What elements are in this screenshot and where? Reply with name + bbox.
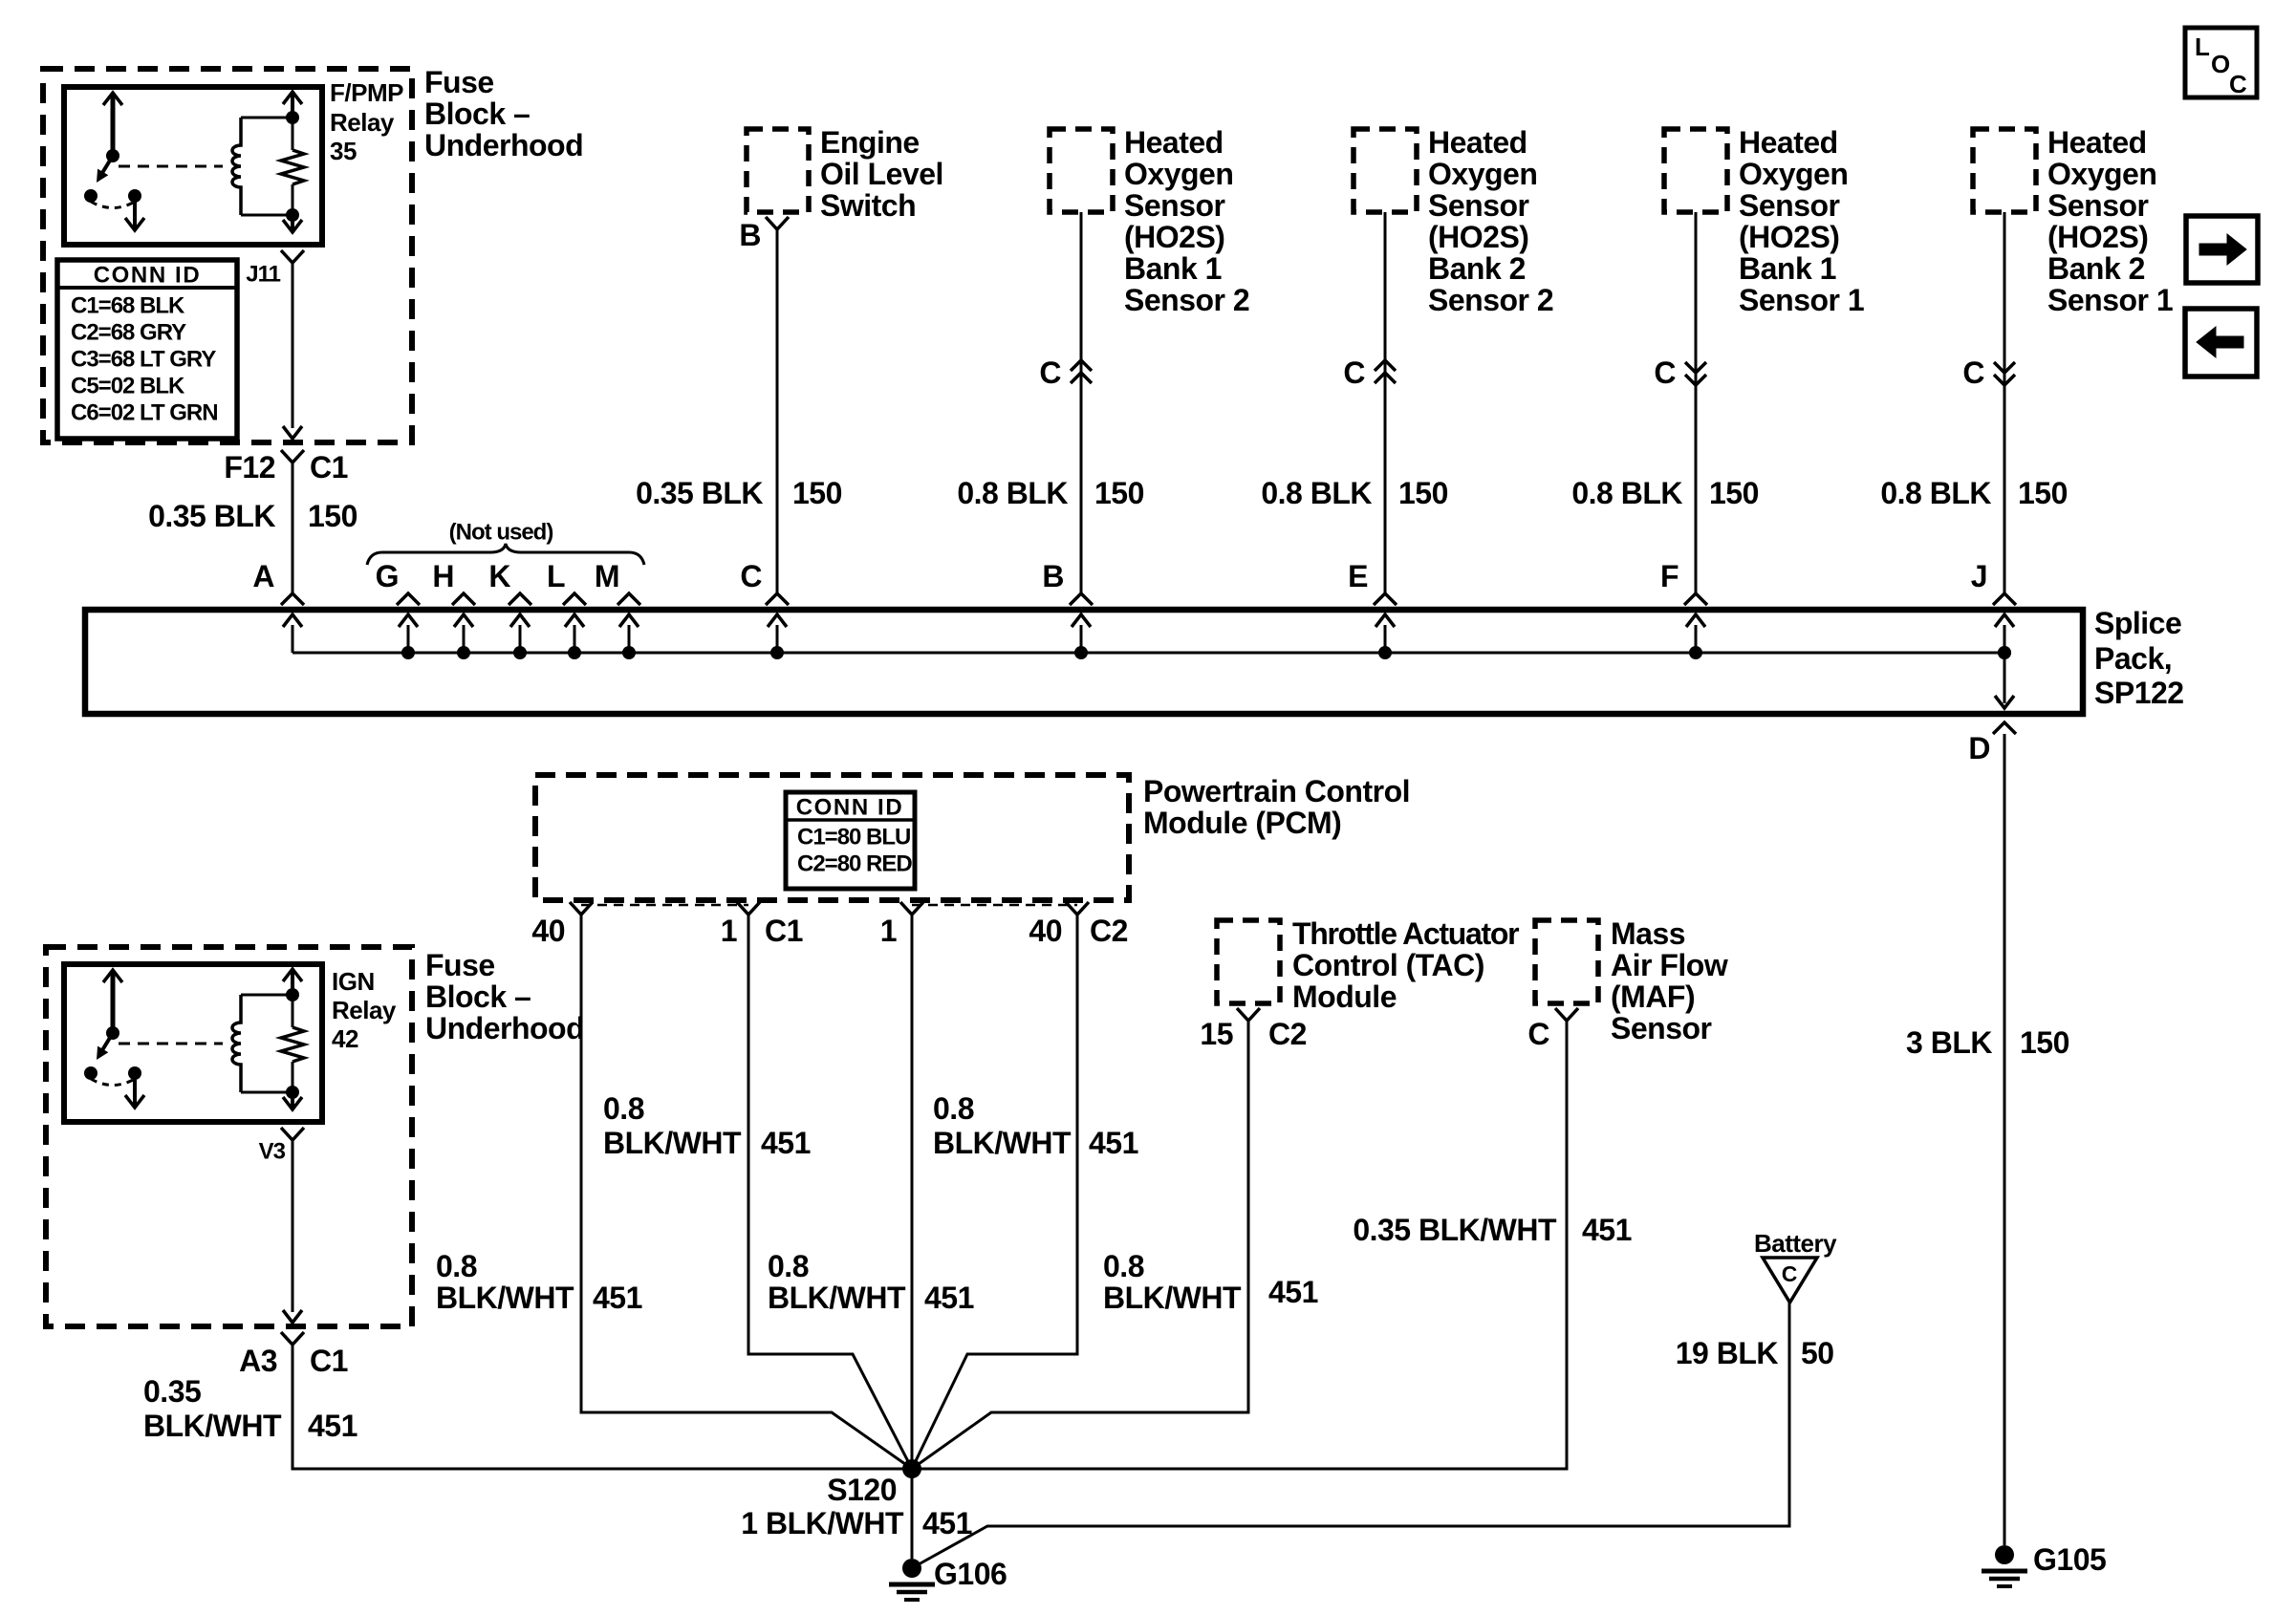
wire V3 to fuse block edge: [292, 1140, 294, 1312]
engine oil level switch dashed box: [747, 129, 809, 212]
svg-text:Oxygen: Oxygen: [1739, 157, 1848, 191]
PCM connector C2 dashed strip: [912, 904, 1077, 907]
fuse block underhood (bottom) dashed box: [46, 947, 412, 1326]
brace over unused pins G-M: [367, 544, 644, 565]
svg-text:C1: C1: [310, 1344, 348, 1378]
svg-text:Relay: Relay: [332, 996, 397, 1024]
svg-text:C: C: [1962, 355, 1984, 390]
wire TAC to S120: [912, 1021, 1248, 1469]
svg-text:19 BLK: 19 BLK: [1676, 1336, 1779, 1370]
svg-text:150: 150: [1094, 476, 1144, 510]
splice pack internal bus wire: [292, 652, 2004, 655]
svg-text:C2: C2: [1268, 1017, 1307, 1051]
svg-text:Oil Level: Oil Level: [820, 157, 943, 191]
relay F/PMP 35 coil terminal arrow (bottom): [291, 215, 294, 230]
relay F/PMP 35 NO contact node: [128, 189, 141, 203]
svg-text:Control (TAC): Control (TAC): [1292, 948, 1484, 982]
relay IGN 42 suppression resistor: [281, 1027, 304, 1062]
relay IGN 42 wire from resistor: [292, 1062, 294, 1092]
svg-text:F12: F12: [224, 450, 275, 484]
svg-text:Heated: Heated: [1739, 125, 1838, 160]
svg-text:G106: G106: [934, 1557, 1007, 1591]
svg-text:150: 150: [308, 499, 357, 533]
splice pack entry F: terminal chevron: [1684, 593, 1707, 605]
connector A3/C1 (female): [281, 1332, 304, 1345]
relay IGN 42 NC contact node: [84, 1066, 97, 1080]
svg-text:Splice: Splice: [2094, 606, 2181, 640]
svg-text:C: C: [2229, 70, 2247, 98]
svg-text:C3=68 LT GRY: C3=68 LT GRY: [71, 347, 216, 373]
splice pack entry H: internal arrow: [463, 625, 466, 653]
svg-text:BLK/WHT: BLK/WHT: [143, 1409, 282, 1443]
splice pack entry B: internal arrow: [1080, 625, 1083, 653]
splice pack SP122 box: [85, 610, 2083, 714]
wire D to ground G105: [2004, 734, 2006, 1545]
svg-text:Oxygen: Oxygen: [1428, 157, 1537, 191]
svg-text:451: 451: [924, 1281, 974, 1315]
PCM pin connector at x=608 (female): [570, 902, 593, 915]
svg-text:C: C: [1527, 1017, 1549, 1051]
svg-text:G105: G105: [2033, 1542, 2106, 1577]
splice pack exit D: junction dot: [1998, 646, 2011, 659]
svg-text:C2=80 RED: C2=80 RED: [797, 851, 912, 877]
svg-text:Bank 2: Bank 2: [2047, 251, 2145, 286]
wire J11 to fuse block edge: [292, 263, 294, 428]
svg-text:Engine: Engine: [820, 125, 920, 160]
svg-text:(HO2S): (HO2S): [1428, 220, 1528, 254]
svg-text:0.8: 0.8: [436, 1249, 477, 1283]
nav arrow left: [2185, 309, 2257, 377]
svg-text:0.35: 0.35: [143, 1374, 201, 1409]
relay IGN 42 node bottom: [286, 1086, 299, 1099]
svg-text:0.8: 0.8: [768, 1249, 809, 1283]
splice pack junction dot E: [1378, 646, 1392, 659]
relay F/PMP 35 wire to resistor: [292, 118, 294, 150]
svg-text:0.35 BLK/WHT: 0.35 BLK/WHT: [1353, 1213, 1557, 1247]
nav arrow right: [2186, 216, 2258, 283]
svg-text:SP122: SP122: [2094, 676, 2184, 710]
relay IGN 42 node top: [286, 988, 299, 1001]
inline connector C (HO2S B2S1): [1994, 362, 2015, 373]
relay F/PMP 35 wire from resistor: [292, 184, 294, 215]
wire HO2S B2S2 upper segment: [1384, 212, 1387, 593]
svg-text:Sensor: Sensor: [2047, 188, 2149, 223]
svg-text:Heated: Heated: [1428, 125, 1527, 160]
connector 15/C2 (TAC): [1237, 1008, 1260, 1021]
svg-text:Oxygen: Oxygen: [2047, 157, 2156, 191]
svg-text:Sensor 2: Sensor 2: [1124, 283, 1249, 317]
splice pack entry E: internal arrow: [1384, 625, 1387, 653]
svg-text:Underhood: Underhood: [425, 1011, 584, 1045]
svg-text:M: M: [595, 559, 619, 593]
relay F/PMP 35 suppression resistor: [281, 150, 304, 184]
PCM pin connector at x=954 (female): [900, 902, 923, 915]
relay F/PMP 35 switch common terminal arrow: [111, 95, 116, 156]
svg-text:451: 451: [1582, 1213, 1632, 1247]
svg-text:150: 150: [2020, 1025, 2069, 1060]
splice pack entry C: terminal chevron: [766, 593, 789, 605]
svg-text:Sensor: Sensor: [1739, 188, 1840, 223]
svg-text:Sensor 1: Sensor 1: [2047, 283, 2173, 317]
svg-text:Sensor 2: Sensor 2: [1428, 283, 1553, 317]
wire MAF to S120: [914, 1021, 1567, 1469]
throttle actuator control module dashed box: [1217, 920, 1280, 1003]
svg-text:42: 42: [332, 1024, 358, 1053]
svg-text:J: J: [1971, 559, 1987, 593]
connector pin B (oil level switch): [766, 217, 789, 229]
splice pack entry E: terminal chevron: [1374, 593, 1397, 605]
heated oxygen sensor bank 1 sensor 2 dashed box: [1050, 129, 1113, 212]
splice pack junction dot H: [457, 646, 470, 659]
relay IGN 42 coil top wire: [241, 994, 292, 997]
relay IGN 42 contact travel arc: [91, 1079, 135, 1086]
relay F/PMP 35 box: [64, 87, 322, 245]
splice pack entry L: internal arrow: [574, 625, 576, 653]
relay F/PMP 35 actuation dashed link: [119, 165, 223, 168]
ground G105 symbol: [1995, 1545, 2014, 1564]
svg-text:S120: S120: [827, 1473, 897, 1507]
svg-text:F/PMP: F/PMP: [330, 78, 403, 107]
relay F/PMP 35 NO contact terminal arrow: [133, 196, 137, 228]
splice pack entry H: terminal chevron: [452, 593, 475, 605]
svg-text:Bank 2: Bank 2: [1428, 251, 1526, 286]
svg-text:3 BLK: 3 BLK: [1906, 1025, 1992, 1060]
svg-text:Throttle Actuator: Throttle Actuator: [1292, 916, 1519, 951]
svg-text:Heated: Heated: [1124, 125, 1224, 160]
svg-text:1 BLK/WHT: 1 BLK/WHT: [741, 1506, 904, 1540]
wire battery to ground G106: [919, 1303, 1789, 1564]
svg-text:(MAF): (MAF): [1611, 980, 1695, 1014]
wire PCM C1 pin 1 to S120: [748, 915, 912, 1469]
wire F12 to splice pack pin A: [292, 463, 294, 593]
svg-text:(HO2S): (HO2S): [2047, 220, 2148, 254]
svg-text:Heated: Heated: [2047, 125, 2147, 160]
splice pack junction dot J: [1998, 646, 2011, 659]
svg-text:BLK/WHT: BLK/WHT: [933, 1126, 1072, 1160]
svg-text:L: L: [547, 559, 565, 593]
svg-text:BLK/WHT: BLK/WHT: [436, 1281, 574, 1315]
svg-text:Oxygen: Oxygen: [1124, 157, 1233, 191]
splice pack entry J: terminal chevron: [1993, 593, 2016, 605]
arrow into fuse block boundary (bottom): [283, 1310, 302, 1323]
svg-text:CONN ID: CONN ID: [94, 263, 202, 289]
svg-text:150: 150: [2018, 476, 2068, 510]
svg-text:Underhood: Underhood: [424, 128, 583, 162]
relay F/PMP 35 node bottom: [286, 208, 299, 222]
svg-text:0.8: 0.8: [933, 1091, 974, 1126]
svg-text:C1: C1: [765, 914, 803, 948]
powertrain control module dashed box: [535, 775, 1129, 900]
splice pack junction dot B: [1074, 646, 1088, 659]
relay F/PMP 35 coil terminal arrow (top): [291, 95, 294, 118]
svg-text:451: 451: [1089, 1126, 1138, 1160]
svg-text:Bank 1: Bank 1: [1739, 251, 1836, 286]
svg-text:451: 451: [1268, 1275, 1318, 1309]
connector J11 (female): [281, 250, 304, 263]
svg-text:Sensor: Sensor: [1124, 188, 1225, 223]
svg-text:1: 1: [880, 914, 897, 948]
svg-text:0.8 BLK: 0.8 BLK: [1571, 476, 1682, 510]
relay F/PMP 35 node top: [286, 111, 299, 124]
svg-text:150: 150: [1398, 476, 1448, 510]
relay IGN 42 coil terminal arrow (bottom): [291, 1092, 294, 1108]
relay F/PMP 35 coil bottom wire: [241, 214, 292, 217]
relay F/PMP 35 switch pivot node: [106, 149, 119, 162]
splice pack entry A: internal arrow: [292, 625, 294, 653]
svg-text:35: 35: [330, 137, 357, 165]
relay F/PMP 35 NC contact node: [84, 189, 97, 203]
svg-text:0.8: 0.8: [1103, 1249, 1144, 1283]
splice pack entry L: terminal chevron: [563, 593, 586, 605]
inline connector C (HO2S B1S1): [1685, 362, 1706, 373]
svg-text:15: 15: [1200, 1017, 1233, 1051]
svg-text:Module: Module: [1292, 980, 1397, 1014]
relay IGN 42 NO contact node: [128, 1066, 141, 1080]
svg-text:C1=68 BLK: C1=68 BLK: [71, 293, 185, 319]
svg-text:C: C: [1782, 1261, 1798, 1286]
svg-text:40: 40: [1029, 914, 1062, 948]
relay F/PMP 35 switch arm: [102, 156, 113, 173]
splice pack junction dot C: [770, 646, 784, 659]
svg-text:Bank 1: Bank 1: [1124, 251, 1222, 286]
PCM pin connector at x=783 (female): [737, 902, 760, 915]
svg-text:B: B: [739, 218, 761, 252]
svg-text:40: 40: [531, 914, 565, 948]
PCM connector C1 dashed strip: [581, 904, 748, 907]
svg-text:Sensor: Sensor: [1428, 188, 1529, 223]
relay IGN 42 actuation dashed link: [119, 1043, 223, 1045]
relay IGN 42 box: [64, 964, 322, 1122]
svg-text:150: 150: [1709, 476, 1759, 510]
svg-text:BLK/WHT: BLK/WHT: [603, 1126, 742, 1160]
svg-text:Sensor 1: Sensor 1: [1739, 283, 1864, 317]
svg-text:1: 1: [721, 914, 737, 948]
svg-text:L: L: [2195, 32, 2210, 61]
mass air flow sensor dashed box: [1535, 920, 1598, 1003]
svg-text:Battery: Battery: [1754, 1229, 1837, 1258]
svg-text:Fuse: Fuse: [425, 948, 495, 982]
svg-text:0.8 BLK: 0.8 BLK: [957, 476, 1068, 510]
svg-text:451: 451: [593, 1281, 642, 1315]
svg-text:H: H: [432, 559, 454, 593]
svg-text:Fuse: Fuse: [424, 65, 494, 99]
svg-text:CONN ID: CONN ID: [796, 795, 904, 821]
splice pack entry M: internal arrow: [628, 625, 631, 653]
svg-text:0.8: 0.8: [603, 1091, 644, 1126]
svg-text:0.8 BLK: 0.8 BLK: [1261, 476, 1372, 510]
splice pack exit D: terminal connector: [1993, 722, 2016, 734]
wire oil level switch to splice pack pin C: [776, 229, 779, 593]
splice pack entry A: terminal chevron: [281, 593, 304, 605]
svg-text:Mass: Mass: [1611, 916, 1685, 951]
relay IGN 42 switch pivot node: [106, 1026, 119, 1040]
CONN ID table (PCM): [786, 792, 915, 889]
splice pack entry M: terminal chevron: [617, 593, 640, 605]
svg-text:A3: A3: [239, 1344, 277, 1378]
svg-text:J11: J11: [246, 262, 280, 288]
svg-text:A: A: [252, 559, 274, 593]
svg-text:Switch: Switch: [820, 188, 916, 223]
splice S120 dot: [902, 1459, 921, 1478]
splice pack entry C: internal arrow: [776, 625, 779, 653]
svg-text:(HO2S): (HO2S): [1124, 220, 1224, 254]
svg-text:V3: V3: [259, 1139, 286, 1165]
svg-text:Powertrain Control: Powertrain Control: [1143, 774, 1410, 808]
relay IGN 42 wire to resistor: [292, 995, 294, 1027]
splice pack entry B: terminal chevron: [1070, 593, 1093, 605]
svg-text:451: 451: [761, 1126, 811, 1160]
relay IGN 42 coil: [232, 995, 241, 1092]
svg-text:Air Flow: Air Flow: [1611, 948, 1728, 982]
svg-text:Relay: Relay: [330, 108, 395, 137]
svg-text:BLK/WHT: BLK/WHT: [768, 1281, 906, 1315]
svg-text:C1: C1: [310, 450, 348, 484]
wire A3 to S120: [292, 1345, 910, 1469]
svg-text:Sensor: Sensor: [1611, 1011, 1712, 1045]
splice pack junction dot K: [513, 646, 527, 659]
relay IGN 42 coil terminal arrow (top): [291, 972, 294, 995]
svg-text:C1=80 BLU: C1=80 BLU: [797, 825, 910, 851]
arrow into fuse block boundary: [283, 426, 302, 439]
LOC reference box: [2185, 28, 2257, 97]
relay F/PMP 35 coil top wire: [241, 117, 292, 119]
splice pack junction dot L: [568, 646, 581, 659]
svg-text:0.8 BLK: 0.8 BLK: [1880, 476, 1991, 510]
svg-text:IGN: IGN: [332, 967, 375, 996]
svg-text:Block –: Block –: [424, 97, 530, 131]
svg-text:E: E: [1348, 559, 1368, 593]
splice pack exit D: internal arrow down: [2004, 653, 2006, 703]
wire HO2S B1S1 upper segment: [1695, 212, 1698, 593]
svg-text:G: G: [376, 559, 399, 593]
svg-text:C2=68 GRY: C2=68 GRY: [71, 320, 186, 346]
relay F/PMP 35 coil: [232, 118, 241, 215]
ground G106 symbol: [902, 1559, 921, 1578]
wire PCM C1 pin 40 to S120: [581, 915, 912, 1469]
wire PCM C2 pin 40 to S120: [912, 915, 1077, 1469]
heated oxygen sensor bank 1 sensor 1 dashed box: [1664, 129, 1727, 212]
svg-text:Pack,: Pack,: [2094, 641, 2172, 676]
battery connector triangle C: [1763, 1258, 1817, 1303]
connector C (MAF): [1555, 1008, 1578, 1021]
svg-text:(Not used): (Not used): [449, 520, 553, 546]
svg-text:451: 451: [308, 1409, 357, 1443]
wire PCM C2 pin 1 to S120: [911, 915, 914, 1469]
connector F12/C1 (female): [281, 450, 304, 463]
splice pack entry F: internal arrow: [1695, 625, 1698, 653]
wire S120 to ground G106: [911, 1469, 914, 1559]
svg-text:0.35 BLK: 0.35 BLK: [148, 499, 275, 533]
relay IGN 42 coil bottom wire: [241, 1091, 292, 1094]
svg-text:C: C: [1654, 355, 1676, 390]
splice pack entry K: internal arrow: [519, 625, 522, 653]
svg-text:Module (PCM): Module (PCM): [1143, 806, 1341, 840]
inline connector C (HO2S B1S2): [1071, 360, 1092, 371]
svg-text:BLK/WHT: BLK/WHT: [1103, 1281, 1242, 1315]
heated oxygen sensor bank 2 sensor 1 dashed box: [1973, 129, 2036, 212]
splice pack entry J: internal arrow: [2004, 625, 2006, 653]
svg-text:F: F: [1660, 559, 1679, 593]
svg-text:451: 451: [922, 1506, 972, 1540]
CONN ID table (fuse block): [57, 260, 237, 439]
relay IGN 42 NO contact terminal arrow: [133, 1073, 137, 1106]
svg-text:50: 50: [1801, 1336, 1834, 1370]
svg-text:O: O: [2211, 50, 2230, 78]
svg-text:C2: C2: [1090, 914, 1128, 948]
relay F/PMP 35 contact travel arc: [91, 202, 135, 208]
svg-text:Block –: Block –: [425, 980, 531, 1014]
svg-text:150: 150: [792, 476, 842, 510]
wire HO2S B1S2 upper segment: [1080, 212, 1083, 593]
heated oxygen sensor bank 2 sensor 2 dashed box: [1354, 129, 1417, 212]
svg-text:C6=02 LT GRN: C6=02 LT GRN: [71, 400, 218, 426]
splice pack junction dot M: [622, 646, 636, 659]
wire HO2S B2S1 upper segment: [2004, 212, 2006, 593]
relay IGN 42 switch common terminal arrow: [111, 972, 116, 1033]
svg-text:D: D: [1968, 731, 1990, 765]
svg-text:C: C: [740, 559, 762, 593]
PCM pin connector at x=1127 (female): [1066, 902, 1089, 915]
svg-text:C: C: [1039, 355, 1061, 390]
splice pack junction dot G: [401, 646, 415, 659]
svg-text:K: K: [488, 559, 510, 593]
svg-text:C: C: [1343, 355, 1365, 390]
svg-text:(HO2S): (HO2S): [1739, 220, 1839, 254]
relay IGN 42 switch arm: [102, 1033, 113, 1050]
svg-text:0.35 BLK: 0.35 BLK: [636, 476, 763, 510]
svg-text:C5=02 BLK: C5=02 BLK: [71, 374, 185, 399]
splice pack entry G: internal arrow: [407, 625, 410, 653]
splice pack entry K: terminal chevron: [509, 593, 531, 605]
svg-text:B: B: [1042, 559, 1064, 593]
inline connector C (HO2S B2S2): [1375, 360, 1396, 371]
connector V3 (female): [281, 1128, 304, 1140]
fuse block underhood (top) dashed box: [43, 69, 412, 442]
splice pack entry G: terminal chevron: [397, 593, 420, 605]
splice pack junction dot F: [1689, 646, 1702, 659]
